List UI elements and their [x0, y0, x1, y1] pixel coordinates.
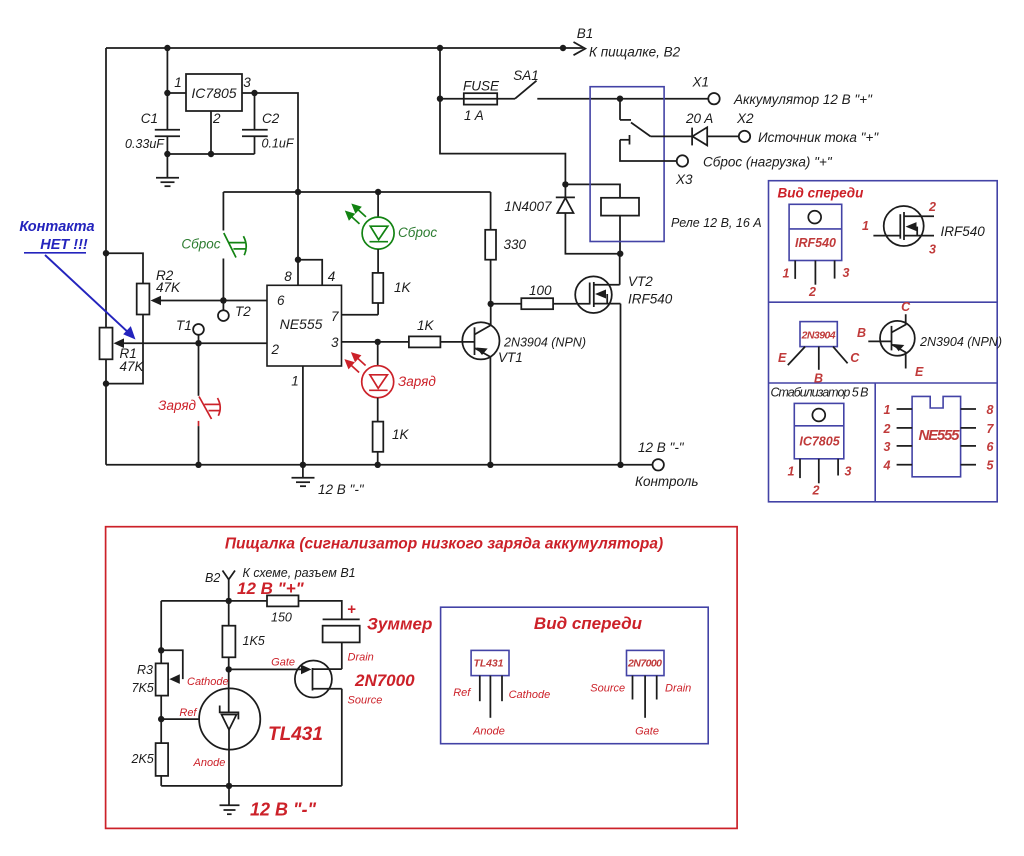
potentiometer R2 47K [103, 250, 181, 387]
symbol IRF540 mosfet [862, 200, 985, 257]
svg-text:1: 1 [862, 219, 869, 233]
svg-text:2N3904 (NPN): 2N3904 (NPN) [919, 335, 1002, 349]
svg-text:B: B [857, 326, 866, 340]
wire NE555 pin1 to ground rail [302, 366, 304, 465]
node T2 test point [218, 297, 251, 321]
svg-text:4: 4 [883, 459, 891, 473]
capacitor C2 [242, 93, 295, 154]
svg-text:NE555: NE555 [919, 427, 961, 444]
svg-text:VT1: VT1 [498, 350, 523, 365]
right panel frame (blue) [769, 181, 998, 502]
potentiometer R1 47K [100, 328, 145, 374]
resistor 1K5 [222, 601, 264, 670]
svg-text:Сброс (нагрузка) "+": Сброс (нагрузка) "+" [703, 155, 833, 170]
svg-text:Source: Source [348, 695, 383, 707]
wire NE555 pins 8 and 4 to Vcc [295, 192, 322, 285]
svg-text:IC7805: IC7805 [191, 85, 236, 101]
svg-text:7: 7 [987, 422, 995, 436]
wire left vertical rail [105, 48, 107, 465]
wire NE555 Vcc rail [223, 189, 490, 195]
wire IC7805 pin3 to NE555 Vcc [242, 90, 298, 192]
svg-text:Anode: Anode [193, 757, 226, 769]
wire beeper ground rail [161, 783, 342, 789]
svg-text:1K: 1K [417, 318, 435, 333]
wire left branch of beeper [158, 601, 164, 786]
svg-text:Пищалка (сигнализатор низкого: Пищалка (сигнализатор низкого заряда акк… [225, 536, 663, 553]
svg-text:Зуммер: Зуммер [367, 615, 432, 634]
svg-text:1K5: 1K5 [243, 634, 265, 648]
svg-text:VT2: VT2 [628, 274, 653, 289]
svg-text:0.33uF: 0.33uF [125, 137, 165, 151]
svg-text:IC7805: IC7805 [799, 435, 840, 449]
svg-text:1K: 1K [392, 427, 410, 442]
package NE555 DIP-8 [883, 396, 995, 476]
package 2N7000 TO-92 front view [590, 650, 691, 737]
svg-text:Заряд: Заряд [398, 374, 436, 389]
svg-text:Gate: Gate [635, 726, 659, 738]
wire C1-C2 bottom bus [164, 151, 254, 157]
shunt reference U TL431 [179, 669, 323, 786]
wire Ref row [161, 718, 199, 720]
svg-text:8: 8 [987, 403, 994, 417]
svg-text:2N7000: 2N7000 [354, 671, 415, 690]
svg-text:1: 1 [783, 267, 790, 281]
svg-text:Drain: Drain [665, 683, 691, 695]
bottom box frame (red) [106, 527, 738, 829]
LED Заряд (red) with resistor 1K [344, 342, 436, 465]
svg-text:NE555: NE555 [280, 316, 323, 332]
svg-text:47K: 47K [120, 359, 145, 374]
wire top rail B1 [106, 45, 566, 51]
svg-text:3: 3 [331, 335, 339, 350]
svg-text:12 В "-": 12 В "-" [318, 482, 365, 497]
package TL431 TO-92 front view [453, 650, 550, 737]
svg-text:20 A: 20 A [685, 111, 713, 126]
wire fuse branch vertical [437, 48, 443, 102]
wire VT2 drain up [617, 251, 623, 285]
diode 20A [651, 111, 739, 145]
package IRF540 TO-220 front view [783, 204, 850, 299]
svg-text:2: 2 [883, 422, 891, 436]
svg-text:Аккумулятор 12 В "+": Аккумулятор 12 В "+" [733, 92, 873, 107]
svg-text:C: C [850, 351, 860, 365]
resistor 100 (gate) [491, 283, 590, 309]
svg-text:SA1: SA1 [513, 68, 539, 83]
svg-text:12 В "-": 12 В "-" [638, 440, 685, 455]
svg-text:IRF540: IRF540 [628, 292, 673, 307]
svg-text:0.1uF: 0.1uF [262, 137, 295, 151]
resistor 2K5 [131, 743, 169, 776]
switch SA1 [513, 68, 708, 99]
node X3 terminal [675, 155, 833, 188]
wire IC7805 pin1 [164, 90, 186, 96]
svg-text:330: 330 [504, 237, 527, 252]
svg-text:6: 6 [987, 440, 995, 454]
wire VT1 collector up [488, 301, 494, 326]
transistor Q VT2 IRF540 [575, 274, 673, 313]
svg-text:3: 3 [884, 440, 891, 454]
svg-text:1: 1 [174, 75, 182, 90]
svg-text:X1: X1 [692, 75, 710, 90]
svg-text:B1: B1 [577, 26, 594, 41]
svg-text:Контакта: Контакта [19, 219, 94, 235]
wire buzzer top rail [161, 598, 267, 604]
svg-text:Контроль: Контроль [635, 474, 698, 489]
svg-text:IRF540: IRF540 [941, 224, 986, 239]
node Контроль terminal [635, 440, 698, 489]
svg-text:7: 7 [331, 309, 339, 324]
svg-text:1K: 1K [394, 280, 412, 295]
resistor 330 [485, 192, 526, 304]
svg-text:2N3904 (NPN): 2N3904 (NPN) [503, 336, 586, 350]
svg-text:3: 3 [843, 266, 850, 280]
wire VT1 emitter down [487, 357, 493, 468]
svg-text:+: + [347, 601, 356, 618]
svg-text:К схеме, разъем B1: К схеме, разъем B1 [243, 566, 356, 580]
svg-text:T1: T1 [176, 318, 192, 333]
svg-text:2: 2 [812, 484, 820, 498]
svg-text:Cathode: Cathode [187, 676, 229, 688]
svg-text:Вид спереди: Вид спереди [778, 186, 865, 201]
svg-text:1: 1 [788, 465, 795, 479]
node T1 test point [176, 318, 204, 343]
svg-text:2: 2 [928, 200, 936, 214]
svg-text:150: 150 [271, 611, 292, 625]
wire NE555 pin7 row [342, 314, 379, 316]
svg-text:2: 2 [808, 285, 816, 299]
ground symbol beeper [220, 786, 240, 814]
wire NE555 pin6 row with wiper arrow into R2 [151, 293, 286, 308]
annotation Контакта НЕТ (blue) [19, 219, 135, 340]
relay contact armature [617, 96, 677, 162]
relay coil [565, 184, 639, 253]
svg-text:4: 4 [328, 269, 336, 284]
svg-text:Drain: Drain [348, 652, 374, 664]
svg-text:C: C [901, 300, 911, 314]
svg-text:E: E [915, 365, 924, 379]
ground under C1 [156, 154, 179, 186]
svg-text:100: 100 [529, 283, 552, 298]
svg-text:3: 3 [845, 465, 852, 479]
fuse FUSE 1A [440, 79, 515, 124]
svg-text:Cathode: Cathode [509, 689, 551, 701]
svg-text:Сброс: Сброс [181, 237, 220, 252]
ground symbol main [292, 465, 365, 497]
node X1 terminal [692, 75, 874, 108]
svg-text:B2: B2 [205, 571, 220, 585]
diode D 1N4007 [504, 181, 620, 254]
wire bottom ground rail [106, 462, 653, 468]
resistor 1K (base) [409, 318, 475, 347]
svg-text:8: 8 [284, 269, 292, 284]
node B1 connector arrow [563, 26, 681, 60]
svg-text:Ref: Ref [179, 707, 197, 719]
svg-text:Реле 12 В, 16 А: Реле 12 В, 16 А [671, 216, 762, 230]
wire gate row with arrow [226, 657, 312, 675]
svg-text:2K5: 2K5 [131, 752, 154, 766]
svg-text:Сброс: Сброс [398, 225, 437, 240]
wire relay feed L-path [440, 99, 565, 185]
svg-text:X2: X2 [736, 111, 754, 126]
svg-text:Ref: Ref [453, 687, 471, 699]
svg-text:3: 3 [243, 75, 251, 90]
svg-text:E: E [778, 351, 787, 365]
node B2 connector fork [205, 566, 356, 601]
svg-text:IRF540: IRF540 [795, 236, 836, 250]
wire VT2 source down [617, 304, 623, 468]
package 2N3904 TO-92 front view [778, 322, 860, 386]
svg-text:НЕТ !!!: НЕТ !!! [40, 237, 88, 253]
svg-text:Вид спереди: Вид спереди [534, 614, 643, 633]
svg-text:6: 6 [277, 293, 285, 308]
svg-text:2: 2 [271, 342, 280, 357]
svg-text:1: 1 [884, 403, 891, 417]
svg-text:Стабилизатор 5 В: Стабилизатор 5 В [771, 386, 869, 400]
svg-text:X3: X3 [675, 172, 693, 187]
relay box (blue) [590, 87, 664, 242]
svg-text:К пищалке, B2: К пищалке, B2 [589, 45, 681, 60]
svg-text:C2: C2 [262, 111, 280, 126]
svg-text:1 A: 1 A [464, 108, 484, 123]
LED Сброс (green) with resistor 1K [345, 192, 438, 315]
wire NE555 pin2 row with wiper arrow into R1 [114, 338, 280, 357]
symbol 2N3904 npn [857, 300, 1002, 379]
transistor Q VT1 2N3904 [462, 322, 586, 365]
svg-text:R3: R3 [137, 663, 153, 677]
svg-text:1: 1 [291, 374, 299, 389]
svg-text:T2: T2 [235, 304, 251, 319]
svg-text:Anode: Anode [472, 726, 505, 738]
svg-text:TL431: TL431 [474, 658, 504, 670]
capacitor C1 [125, 48, 180, 154]
potentiometer R3 7K5 [132, 650, 183, 695]
svg-text:TL431: TL431 [268, 724, 323, 745]
svg-text:5: 5 [987, 459, 995, 473]
svg-text:12 В "-": 12 В "-" [250, 800, 317, 820]
svg-text:2: 2 [212, 111, 221, 126]
buzzer Зуммер [323, 601, 433, 669]
switch Сброс (reset pushbutton) [181, 192, 246, 301]
svg-text:2N3904: 2N3904 [801, 330, 836, 342]
svg-text:Source: Source [590, 683, 625, 695]
wire source down [341, 689, 343, 786]
svg-text:1N4007: 1N4007 [504, 199, 552, 214]
svg-text:7K5: 7K5 [132, 681, 154, 695]
svg-text:C1: C1 [141, 111, 158, 126]
svg-text:47K: 47K [156, 280, 181, 295]
timer U NE555 [267, 269, 342, 389]
beeper view box (blue) [441, 607, 709, 744]
svg-text:2N7000: 2N7000 [627, 658, 662, 670]
regulator U IC7805 [174, 74, 251, 126]
resistor 150 [267, 595, 342, 624]
svg-text:3: 3 [929, 243, 936, 257]
wire NE555 pin3 row [342, 339, 409, 345]
svg-text:Источник тока "+": Источник тока "+" [758, 130, 879, 145]
svg-text:B: B [814, 372, 823, 386]
svg-text:Заряд: Заряд [158, 398, 196, 413]
svg-text:FUSE: FUSE [463, 79, 500, 94]
wire IC7805 pin2 down [210, 111, 212, 154]
node X2 terminal [736, 111, 879, 145]
svg-text:Gate: Gate [271, 657, 295, 669]
package IC7805 TO-220 front view [788, 403, 852, 497]
switch Заряд (charge pushbutton) [158, 343, 220, 465]
transistor Q 2N7000 [295, 652, 415, 707]
